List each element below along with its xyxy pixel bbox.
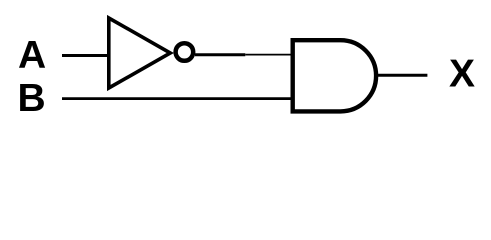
wire A to inverter input [62, 54, 109, 57]
wire inverter output thick segment [195, 53, 245, 56]
wire B to AND input [62, 97, 291, 100]
inverter U1 triangle [109, 18, 171, 88]
svg-text:A: A [18, 34, 46, 77]
wire inverter output thin segment to AND input [245, 54, 291, 56]
AND gate U2 [293, 40, 376, 111]
inverter U1 bubble [176, 43, 194, 61]
svg-text:B: B [18, 77, 46, 120]
wire AND output [377, 74, 427, 77]
svg-text:X: X [449, 53, 475, 96]
